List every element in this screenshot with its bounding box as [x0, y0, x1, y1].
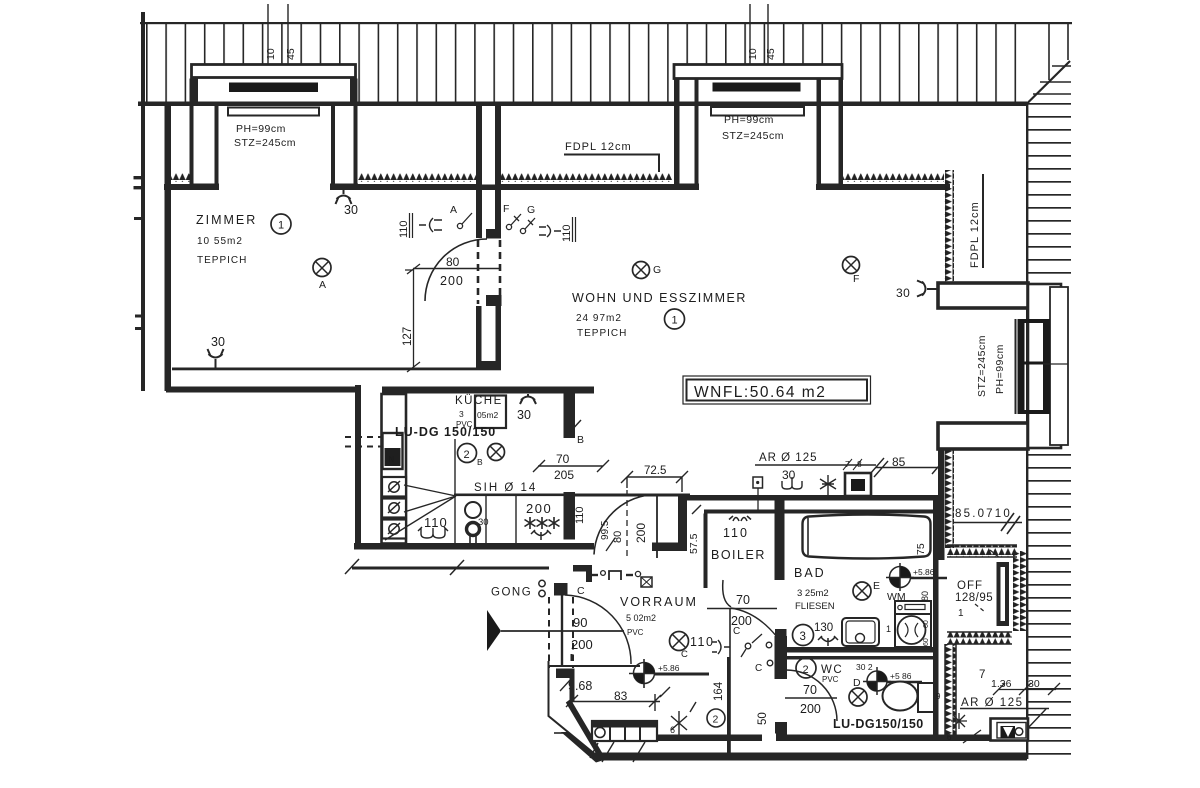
bottom right duct black square: [1001, 726, 1016, 738]
svg-text:+5.86: +5.86: [913, 567, 935, 577]
bottom right duct box: [991, 719, 1029, 741]
entrance dashed jamb lines: [549, 597, 573, 668]
roof corner short hatch lines: [1033, 24, 1071, 94]
kitchen lamp: [488, 444, 505, 461]
dormer 2 left leg: [674, 79, 680, 190]
svg-text:BAD: BAD: [794, 566, 826, 580]
svg-text:9: 9: [936, 692, 941, 701]
stair start circle: [595, 728, 605, 738]
bad washing machine drum: [898, 616, 926, 644]
dormer 1 white clear: [190, 64, 358, 103]
off outer insulation strip: [1013, 551, 1026, 631]
svg-text:STZ=245cm: STZ=245cm: [234, 137, 296, 149]
right knee wall insulation (vertical): [944, 170, 954, 283]
svg-text:10 55m2: 10 55m2: [197, 236, 243, 247]
off niche bottom band: [947, 632, 1012, 644]
kitchen bottom wall band: [354, 543, 594, 550]
svg-text:3 25m2: 3 25m2: [797, 588, 829, 599]
boiler vent glyph: [729, 516, 751, 521]
off window: [997, 566, 1001, 622]
dim 127 vertical line: [413, 269, 415, 368]
svg-text:FDPL 12cm: FDPL 12cm: [565, 141, 632, 153]
boiler inner line: [704, 510, 939, 514]
dim 57.5 tick: [692, 505, 701, 514]
bottom outer wall band: [594, 753, 1027, 761]
zimmer door swing arc: [425, 239, 487, 301]
wohn bottom thin wall line: [567, 494, 690, 497]
kitchen counter line: [454, 494, 567, 497]
chimney block: [845, 473, 871, 496]
kitchen sink circle: [465, 502, 481, 518]
boiler door arc: [723, 580, 731, 607]
svg-text:30: 30: [896, 286, 910, 300]
svg-text:6: 6: [947, 733, 952, 742]
top wall insulation strip right of dormer2: [843, 174, 944, 183]
svg-text:72.5: 72.5: [644, 465, 666, 477]
svg-text:130: 130: [814, 622, 833, 634]
vorraum lamp 110 C: [670, 632, 689, 651]
svg-text:110: 110: [398, 220, 410, 238]
svg-text:110: 110: [574, 506, 586, 524]
entrance door swing arc: [565, 595, 631, 664]
top wall insulation strip between dormers (right): [500, 174, 672, 183]
svg-text:OFF: OFF: [957, 580, 983, 592]
dormer 1 cap: [192, 65, 356, 78]
svg-text:1: 1: [672, 315, 678, 327]
zimmer bottom wall inner line: [172, 368, 501, 371]
right window glazing: [1015, 319, 1017, 414]
svg-text:57.5: 57.5: [688, 533, 700, 554]
svg-text:A: A: [450, 204, 457, 216]
svg-text:G: G: [527, 204, 535, 216]
svg-text:200: 200: [634, 523, 648, 543]
dormer 2 cap: [674, 65, 842, 79]
svg-text:WOHN UND ESSZIMMER: WOHN UND ESSZIMMER: [572, 291, 747, 305]
svg-text:50: 50: [757, 712, 769, 725]
door jamb block below: [486, 295, 502, 306]
vorraum level mark +5.86: [634, 663, 655, 684]
vorraum right corridor wall: [727, 657, 730, 753]
svg-text:30: 30: [211, 335, 225, 349]
roof hatch band (vertical battens): [146, 23, 1030, 103]
kitchen double-u symbol: [418, 527, 448, 538]
entrance arrow line / door leaf: [501, 630, 624, 632]
kitchen circled 2: [458, 444, 477, 463]
kitchen door swing arc: [594, 495, 657, 555]
kitchen trident: [531, 530, 551, 540]
kitchen stars: [525, 517, 560, 529]
svg-text:2: 2: [464, 449, 470, 461]
dormer 1 right leg: [350, 79, 357, 105]
bad washing machine top panel: [895, 601, 931, 614]
svg-text:30 2: 30 2: [856, 662, 873, 672]
svg-text:FDPL 12cm: FDPL 12cm: [969, 201, 981, 268]
svg-text:A: A: [319, 279, 326, 291]
passage gap in inner band: [762, 734, 776, 743]
svg-text:127: 127: [402, 327, 414, 346]
eave tick marks upper: [134, 176, 143, 179]
svg-text:G: G: [653, 264, 661, 276]
kitchen sink square: [475, 396, 506, 429]
svg-text:F: F: [503, 203, 509, 215]
cross-star symbol near stairs: [671, 702, 696, 737]
left eave line: [141, 12, 145, 391]
svg-text:70: 70: [736, 593, 750, 607]
door c swing arc: [731, 608, 777, 637]
bad right wall: [933, 500, 939, 741]
svg-text:GONG: GONG: [491, 587, 532, 599]
svg-text:99.5: 99.5: [600, 520, 611, 540]
svg-text:70: 70: [803, 683, 817, 697]
svg-text:PH=99cm: PH=99cm: [724, 114, 774, 126]
svg-text:1: 1: [958, 608, 964, 619]
svg-text:5 02m2: 5 02m2: [626, 613, 656, 623]
svg-text:80: 80: [446, 255, 460, 269]
wc lamp: [849, 688, 867, 706]
kitchen fridge block n1: [383, 433, 403, 469]
pillar bottom cap: [486, 229, 501, 239]
wohn lamp F: [843, 257, 860, 274]
bad exterior insulated wall: [938, 449, 945, 560]
svg-text:205: 205: [554, 468, 574, 482]
svg-text:1: 1: [278, 220, 284, 232]
kitchen shaft dashes: [345, 437, 381, 447]
svg-text:PVC: PVC: [627, 628, 644, 637]
svg-text:3: 3: [800, 631, 806, 643]
dim extension line: [626, 490, 628, 556]
dormer 2 dim lines 10/45: [750, 4, 768, 64]
svg-text:200: 200: [800, 702, 821, 716]
bad/boiler divider wall: [775, 500, 785, 580]
pillar between zimmer and wohn: [476, 104, 482, 238]
svg-text:D: D: [853, 677, 861, 689]
gong bell circles: [539, 580, 545, 586]
svg-text:164: 164: [713, 681, 725, 701]
kitchen door leaf: [656, 495, 658, 558]
svg-text:30: 30: [517, 408, 531, 422]
svg-text:75: 75: [915, 543, 927, 555]
svg-text:TEPPICH: TEPPICH: [197, 255, 247, 266]
small meter box symbol: [753, 477, 763, 488]
entrance corner step block: [556, 669, 575, 702]
wnfl box: [683, 376, 871, 404]
svg-text:E: E: [873, 580, 880, 592]
boiler left wall: [704, 514, 708, 589]
svg-text:C: C: [681, 649, 688, 660]
svg-text:C: C: [733, 626, 740, 637]
kitchen top wall band: [382, 387, 594, 394]
svg-text:PH=99cm: PH=99cm: [994, 344, 1006, 394]
wc left wall upper block: [775, 629, 787, 637]
svg-text:+5.86: +5.86: [658, 663, 680, 673]
zimmer top wall line: [164, 184, 216, 190]
outer thin wall line: [549, 661, 597, 755]
stair diagonal marks: [590, 742, 645, 762]
svg-text:6: 6: [670, 725, 675, 735]
roof top edge line: [140, 22, 1072, 24]
top wall insulation strip between dormers (left): [358, 174, 477, 183]
svg-text:3: 3: [459, 409, 464, 419]
right window outer board: [1028, 284, 1061, 448]
stair treads: [610, 728, 640, 742]
svg-text:7: 7: [979, 669, 985, 681]
svg-text:24 97m2: 24 97m2: [576, 313, 622, 324]
svg-text:LU-DG150/150: LU-DG150/150: [833, 717, 924, 731]
tick at chamfer: [554, 732, 569, 734]
svg-text:80: 80: [920, 591, 930, 601]
kitchen right wall stub upper: [564, 388, 576, 438]
svg-text:SIH Ø 14: SIH Ø 14: [474, 482, 537, 494]
roof right corner diagonal: [1026, 61, 1070, 105]
wc left wall lower jamb: [775, 722, 787, 741]
wc toilet: [883, 682, 918, 711]
lower exterior insulated wall: [945, 644, 956, 741]
svg-text:110: 110: [690, 635, 714, 649]
bottom vent symbol: [951, 713, 967, 729]
svg-text:C: C: [577, 585, 585, 597]
switch bracket right: [539, 225, 561, 237]
wc door arc: [786, 670, 837, 721]
entrance arrow head: [487, 610, 501, 651]
right eave vertical line: [1026, 103, 1028, 759]
bad lamp E: [853, 582, 871, 600]
gang line end ticks: [345, 559, 464, 575]
gang thin wall line: [352, 567, 549, 570]
svg-text:05m2: 05m2: [477, 410, 499, 420]
bad washbasin: [842, 618, 879, 646]
vorraum threshold dashes: [590, 574, 598, 576]
bad door jamb block: [775, 636, 788, 679]
vorraum top-right L wall: [678, 495, 687, 551]
bad/boiler top wall band: [678, 495, 939, 501]
diagonal chamfer wall inner: [566, 699, 602, 756]
wohn lamp G: [633, 262, 650, 279]
svg-text:VORRAUM: VORRAUM: [620, 595, 698, 609]
small box with x symbol: [641, 577, 652, 587]
wall below zimmer door: [476, 306, 482, 368]
door dashed leaves (zimmer door): [478, 240, 500, 304]
svg-text:N: N: [389, 455, 395, 464]
vorraum bracket symbol: [712, 640, 730, 654]
zimmer bottom wall outer band: [166, 387, 355, 393]
svg-text:30: 30: [782, 468, 796, 482]
fan star symbol: [820, 475, 836, 497]
svg-text:BOILER: BOILER: [711, 548, 766, 562]
right roof horizontal hatch upper: [1027, 103, 1071, 285]
svg-text:128/95: 128/95: [955, 592, 993, 604]
svg-text:STZ=245cm: STZ=245cm: [976, 335, 988, 397]
eave tick marks lower: [135, 315, 145, 318]
svg-text:PVC: PVC: [822, 675, 839, 684]
dormer 2 white clear: [672, 64, 844, 103]
svg-text:1: 1: [886, 624, 891, 634]
dim 127 ticks: [405, 264, 420, 372]
zimmer lamp A: [313, 259, 331, 277]
kitchen wall corner L: [573, 565, 592, 572]
counter dividers: [455, 439, 516, 543]
dormer 2 right leg: [839, 79, 844, 190]
dormer 1 window sill: [228, 108, 319, 116]
bad trident: [818, 636, 838, 646]
svg-text:60: 60: [923, 638, 930, 646]
svg-text:C: C: [755, 663, 762, 674]
bad circled 3: [793, 625, 814, 646]
svg-text:ZIMMER: ZIMMER: [196, 213, 257, 227]
svg-text:AR Ø 125: AR Ø 125: [759, 452, 818, 464]
vorraum floor line: [548, 665, 640, 667]
bathtub: [803, 515, 931, 559]
kitchen vent 30: [520, 394, 536, 404]
svg-text:1.36: 1.36: [991, 678, 1012, 690]
kitchen shaft left wall: [355, 385, 361, 549]
svg-text:200: 200: [571, 637, 593, 652]
svg-text:AR Ø 125: AR Ø 125: [961, 697, 1024, 709]
svg-text:2: 2: [713, 714, 719, 726]
right window wall stub top: [938, 283, 1028, 308]
svg-text:TEPPICH: TEPPICH: [577, 328, 627, 339]
right window sill board: [1050, 287, 1068, 445]
svg-text:200: 200: [526, 501, 552, 516]
stairs top band: [592, 721, 657, 728]
svg-text:B: B: [477, 457, 483, 467]
kitchen cabinet column: [382, 394, 407, 544]
zimmer circled 1: [271, 214, 291, 234]
svg-text:30: 30: [344, 203, 358, 217]
wohn top wall line: [500, 184, 674, 190]
kitchen right wall stub lower: [564, 492, 576, 540]
bad/wc divider wall lines: [783, 647, 936, 653]
dormer 1 dim lines 10/45: [268, 4, 288, 64]
off niche top band: [947, 545, 1017, 557]
kitchen boiler circle: [467, 523, 480, 536]
wohn circled 1: [665, 309, 685, 329]
kitchen corner fan lines: [385, 485, 456, 540]
top wall insulation strip left of dormer1: [166, 174, 190, 183]
wc circled 2: [796, 658, 816, 678]
svg-text:80: 80: [612, 531, 624, 543]
dormer 2 window sill: [711, 107, 804, 116]
svg-text:10: 10: [747, 48, 759, 60]
svg-text:+5 86: +5 86: [890, 671, 912, 681]
svg-text:STZ=245cm: STZ=245cm: [722, 130, 784, 142]
small dash below door jamb: [571, 654, 573, 661]
svg-text:45: 45: [285, 48, 297, 60]
dormer 1 left leg: [191, 79, 198, 105]
dormer 2 window bar: [713, 83, 801, 92]
svg-text:45: 45: [765, 48, 777, 60]
svg-text:F: F: [853, 273, 859, 285]
arc tick: [606, 538, 615, 551]
circled 2 vorraum: [707, 709, 725, 727]
bottom inner wall band: [655, 735, 1025, 742]
svg-text:200: 200: [440, 274, 464, 288]
right roof horizontal hatch lower: [1027, 449, 1071, 757]
svg-text:KÜCHE: KÜCHE: [455, 395, 503, 407]
svg-text:FLIESEN: FLIESEN: [795, 601, 835, 612]
dormer 1 window bar: [229, 83, 318, 93]
svg-text:60: 60: [923, 620, 930, 628]
svg-text:70: 70: [556, 452, 570, 466]
roof band bottom wall line: [138, 102, 1027, 107]
bad level mark wm: [890, 567, 911, 588]
svg-text:10: 10: [265, 48, 277, 60]
right window mid tick: [1043, 363, 1068, 365]
switch bracket left: [419, 218, 442, 232]
vent symbol under ar label: [782, 477, 802, 489]
svg-text:85.0710: 85.0710: [955, 508, 1012, 520]
bad washing machine body: [895, 614, 931, 647]
zimmer door dim line: [413, 268, 501, 270]
corridor wall line vertical: [729, 608, 731, 753]
svg-text:B: B: [577, 434, 584, 446]
entrance door step block: [554, 583, 568, 596]
entrance door leaf line: [561, 595, 563, 666]
svg-text:WNFL:50.64 m2: WNFL:50.64 m2: [694, 384, 826, 401]
svg-text:30: 30: [478, 517, 489, 528]
svg-text:110: 110: [723, 526, 749, 540]
diagonal outer band: [561, 732, 603, 763]
stairs block: [592, 721, 657, 741]
svg-text:PH=99cm: PH=99cm: [236, 123, 286, 135]
zimmer left wall: [165, 104, 172, 391]
svg-text:90: 90: [573, 615, 587, 630]
kitchen cabinet squares with o-slash: [382, 477, 406, 497]
svg-text:LU-DG 150/150: LU-DG 150/150: [395, 425, 496, 439]
right window wall stub bottom: [938, 423, 1028, 449]
svg-text:110: 110: [561, 224, 573, 242]
